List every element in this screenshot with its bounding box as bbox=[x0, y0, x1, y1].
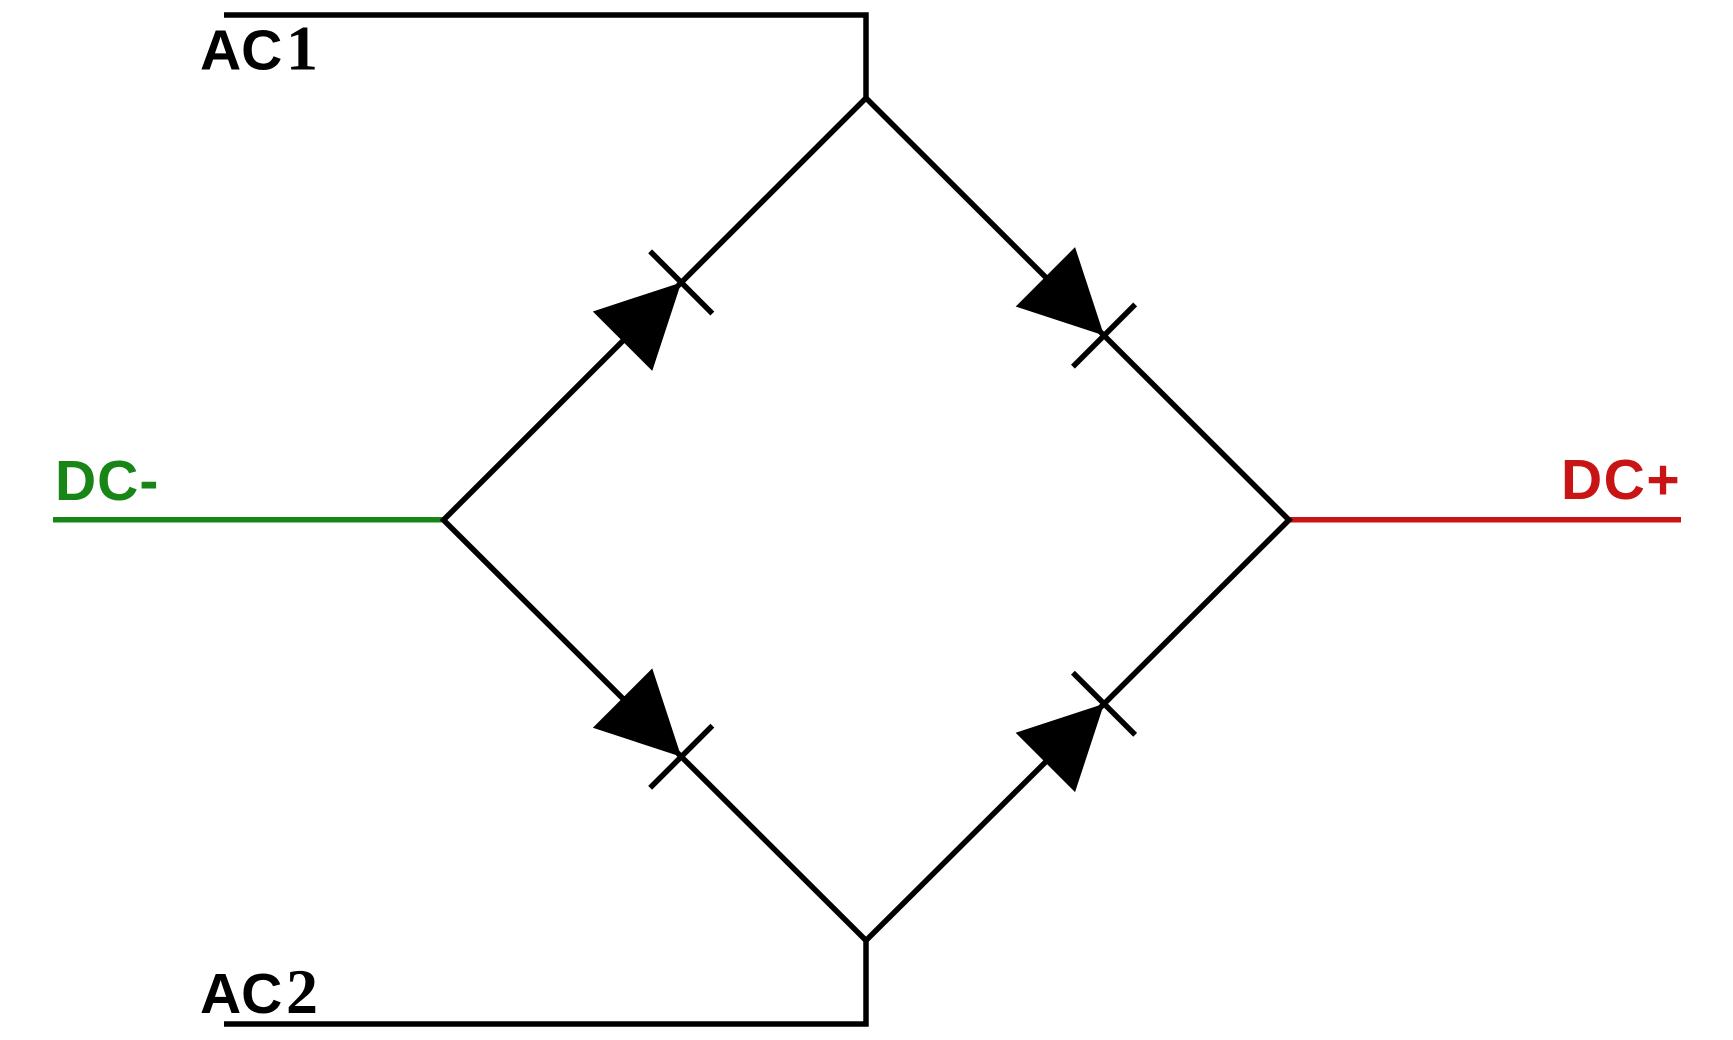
svg-text:DC+: DC+ bbox=[1561, 448, 1681, 512]
svg-text:AC: AC bbox=[200, 962, 282, 1026]
svg-text:2: 2 bbox=[286, 956, 318, 1027]
svg-text:AC: AC bbox=[200, 19, 282, 83]
svg-text:1: 1 bbox=[286, 13, 318, 84]
svg-text:DC-: DC- bbox=[55, 449, 159, 513]
